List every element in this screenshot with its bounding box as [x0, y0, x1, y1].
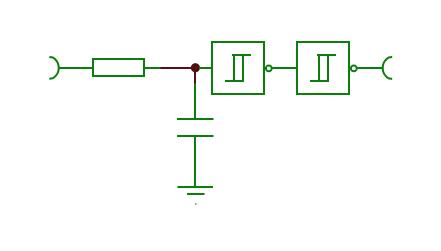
- wire dark segment: [194, 71, 196, 84]
- wire dark segment: [160, 67, 193, 69]
- resistor R1: [93, 59, 144, 76]
- wire: [194, 84, 196, 120]
- schmitt trigger U1: [212, 42, 272, 94]
- capacitor C1: [177, 119, 214, 136]
- ground: [177, 187, 212, 194]
- wire: [144, 67, 160, 69]
- junction node: [191, 63, 200, 72]
- connector J2: [383, 57, 393, 79]
- wire: [199, 67, 212, 69]
- wire: [59, 67, 93, 69]
- wire: [194, 136, 196, 187]
- schmitt trigger U2: [297, 42, 357, 94]
- wire: [273, 67, 298, 69]
- connector J1: [49, 57, 58, 79]
- wire: [358, 67, 384, 69]
- ground origin mark: [195, 203, 197, 205]
